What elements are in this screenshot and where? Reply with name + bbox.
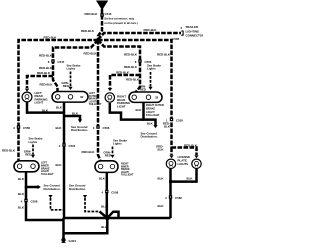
wire RED-BLK to left-center branch [53, 40, 98, 92]
wire RED-BLK license feeds [170, 148, 173, 156]
svg-text:Distribution.: Distribution. [44, 187, 61, 191]
svg-text:BLK: BLK [18, 177, 25, 181]
svg-text:RED: RED [105, 154, 111, 158]
connector C558 (ground) [24, 199, 27, 202]
svg-text:G401: G401 [69, 239, 77, 243]
wire BLK left outer ground [63, 102, 66, 218]
svg-text:RED: RED [25, 152, 31, 156]
wire GRN-RED brake feed [32, 145, 34, 155]
wire BLK to ground point [64, 218, 108, 233]
svg-text:RED: RED [63, 84, 69, 88]
svg-text:BLK: BLK [158, 148, 165, 152]
svg-text:TAILLIGHT: TAILLIGHT [41, 173, 54, 176]
connector C501 [62, 143, 65, 146]
connector C520 [170, 118, 173, 121]
wire BLK branch to ground distribution [64, 116, 80, 120]
svg-text:BLK: BLK [158, 204, 165, 208]
svg-text:RED-BLK: RED-BLK [39, 66, 53, 70]
connector C582 [169, 195, 172, 198]
wire RED-BLK to right trunk [98, 40, 172, 148]
svg-text:BLK: BLK [101, 225, 108, 229]
svg-text:RIGHT OUTER: RIGHT OUTER [146, 103, 164, 107]
svg-text:RED-BLK: RED-BLK [2, 148, 16, 152]
svg-text:BLK: BLK [99, 176, 106, 180]
svg-text:LIGHT/: LIGHT/ [146, 110, 155, 114]
svg-text:BLK: BLK [56, 106, 63, 110]
svg-text:C501: C501 [69, 144, 76, 148]
svg-text:CONNECTOR: CONNECTOR [186, 34, 204, 38]
wire RED-BLK right parking light feed [110, 75, 140, 88]
lamp right outer brake light/taillight [129, 92, 162, 102]
svg-text:BLK: BLK [147, 122, 154, 126]
wire BLK right inner ground [106, 173, 109, 218]
ground G401 [61, 238, 65, 242]
svg-text:C506: C506 [103, 126, 110, 130]
connector C508 [105, 190, 108, 193]
connector C558 on left trunk [17, 125, 20, 128]
svg-text:BLK: BLK [56, 163, 63, 167]
svg-text:Lights: Lights [29, 140, 38, 144]
wire BLK right outer ground [144, 103, 156, 125]
svg-text:RED-BLK: RED-BLK [81, 29, 95, 33]
svg-text:LIGHT: LIGHT [35, 101, 44, 105]
lamp license plate light left [166, 159, 175, 168]
svg-text:Distribution.: Distribution. [71, 128, 88, 132]
svg-text:BLK: BLK [42, 109, 49, 113]
svg-text:RED-BLK: RED-BLK [116, 70, 130, 74]
svg-text:RED-BLK: RED-BLK [126, 78, 140, 82]
svg-text:Lights: Lights [113, 142, 122, 146]
svg-text:BLK: BLK [136, 108, 143, 112]
svg-text:C520: C520 [176, 118, 183, 122]
svg-text:32: 32 [80, 95, 84, 99]
wire BLK left parking ground [27, 102, 64, 113]
trailer lighting connector C585 [181, 31, 183, 35]
svg-text:RED-BLK: RED-BLK [84, 12, 98, 16]
lamp left outer brake light/taillight [52, 92, 88, 103]
svg-text:(In-line connector; may: (In-line connector; may [105, 17, 135, 21]
svg-text:32: 32 [155, 96, 159, 100]
svg-text:BLK: BLK [56, 126, 63, 130]
svg-text:BLK: BLK [187, 176, 194, 180]
svg-text:LIGHT: LIGHT [117, 105, 126, 109]
svg-text:RED-BLK: RED-BLK [124, 65, 138, 69]
svg-text:C585: C585 [172, 37, 179, 41]
svg-text:RED: RED [140, 88, 146, 92]
svg-text:RED-BLK: RED-BLK [39, 83, 53, 87]
svg-text:RED-BLK: RED-BLK [124, 53, 138, 57]
wire BLK hop [108, 212, 119, 218]
svg-text:Lights: Lights [147, 67, 156, 71]
svg-text:C558: C558 [23, 126, 30, 130]
continuation arrow (from fuse) [96, 1, 108, 11]
connector C555 [138, 59, 141, 62]
svg-text:C516: C516 [105, 12, 112, 16]
svg-text:LIGHTS: LIGHTS [178, 162, 189, 166]
svg-text:RED-BLK: RED-BLK [184, 143, 198, 147]
connector C547 [51, 59, 54, 62]
wire BLK right parking ground [110, 103, 144, 120]
wire RED-BLK center trunk [98, 40, 100, 160]
wire RED-BLK to left trunk [19, 40, 99, 161]
branch to ground distribution note [26, 186, 38, 189]
svg-text:C547: C547 [58, 60, 65, 64]
svg-text:G: G [100, 3, 104, 8]
wire BLK left inner ground [26, 173, 64, 221]
svg-text:BLK: BLK [72, 111, 79, 115]
svg-text:RED-BLK: RED-BLK [81, 150, 95, 154]
svg-text:Lights: Lights [67, 67, 76, 71]
svg-text:C508: C508 [111, 190, 118, 194]
wire BLK ground bus left [64, 217, 108, 220]
svg-text:RED-BLK: RED-BLK [83, 52, 97, 56]
wire GRN-RED brake feed [70, 72, 72, 87]
wire RED-BLK top trunk [98, 9, 102, 40]
svg-text:BLK: BLK [101, 204, 108, 208]
svg-text:Distribution.: Distribution. [141, 135, 158, 139]
lamp left inner brake light/taillight [14, 161, 39, 172]
svg-text:RED-BLK: RED-BLK [37, 71, 51, 75]
svg-text:not be present in all cars.): not be present in all cars.) [105, 21, 138, 25]
svg-text:RED-BLK: RED-BLK [157, 53, 171, 57]
svg-text:TAILLIGHT: TAILLIGHT [89, 103, 102, 106]
lamp left rear parking light [22, 92, 32, 102]
svg-text:TAILLIGHT: TAILLIGHT [121, 174, 134, 177]
svg-text:C582: C582 [175, 196, 182, 200]
svg-text:RED-BLK: RED-BLK [44, 35, 58, 39]
lamp license plate light right [192, 159, 201, 168]
wire GRN-RED brake feed [112, 147, 114, 155]
svg-text:BLK: BLK [18, 205, 25, 209]
wire RED-BLK left parking light feed [27, 76, 53, 88]
lamp right inner brake light/taillight [95, 161, 118, 173]
svg-text:BLK: BLK [18, 192, 25, 196]
svg-text:C558: C558 [31, 199, 38, 203]
svg-text:BRAKE: BRAKE [146, 106, 155, 110]
wire BLK ground bus right [107, 217, 170, 220]
svg-text:BLK: BLK [158, 176, 165, 180]
lamp right rear parking light [105, 93, 114, 102]
wire GRN-RED brake feed [150, 72, 152, 87]
svg-text:TAILLIGHT: TAILLIGHT [146, 113, 160, 117]
see ground distribution source A [48, 195, 52, 198]
wire BLK license grounds [171, 169, 197, 182]
svg-text:RED-BLK: RED-BLK [144, 28, 158, 32]
node ground junction [105, 216, 110, 221]
svg-text:BLK: BLK [164, 125, 171, 129]
connector C516 [100, 13, 104, 16]
wire RED-BLK to right-center branch [98, 40, 140, 92]
connector C506 [96, 125, 99, 128]
svg-text:RED-BLK: RED-BLK [39, 54, 53, 58]
svg-text:Distribution.: Distribution. [69, 187, 86, 191]
node main feed junction [97, 39, 100, 42]
wire RED-BLK to trailer connector [98, 33, 181, 40]
